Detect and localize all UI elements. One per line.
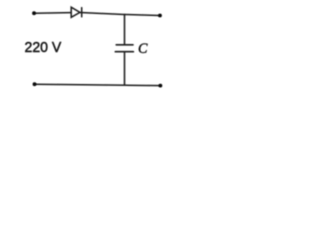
svg-text:C: C <box>138 41 148 57</box>
svg-text:220 V: 220 V <box>25 39 62 56</box>
